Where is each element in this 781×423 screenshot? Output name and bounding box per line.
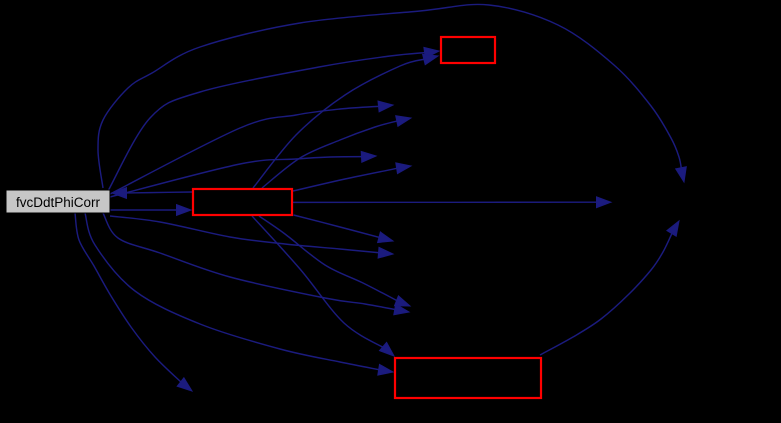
edge fvcDdtPhiCorr to node n3 — [110, 151, 376, 197]
edge fvcDdtPhiCorr to node n1 — [110, 101, 393, 194]
node top box (red highlighted) — [441, 37, 495, 63]
node bottom box (red highlighted) — [395, 358, 541, 398]
node mid box (red highlighted) — [193, 189, 292, 215]
edge mid box to top box — [253, 54, 438, 188]
edge fvcDdtPhiCorr to node n6b — [103, 213, 409, 315]
edge fvcDdtPhiCorr to right node (big top curve) — [98, 4, 686, 188]
edge mid box to node n5a — [294, 215, 394, 243]
edge mid box to right node (horizontal) — [293, 197, 611, 208]
edge fvcDdtPhiCorr to top box — [108, 47, 439, 191]
edge fvcDdtPhiCorr to node n5b — [110, 216, 393, 258]
edge mid box to bottom box — [252, 216, 394, 356]
edge bottom box to right node — [540, 221, 679, 355]
svg-text:fvcDdtPhiCorr: fvcDdtPhiCorr — [16, 195, 101, 210]
edge mid box to node n6a — [259, 216, 410, 306]
edge mid box to node n4 — [293, 163, 411, 191]
edge mid box to node n2 — [262, 116, 411, 188]
edge fvcDdtPhiCorr to bottom box — [85, 213, 393, 375]
edge fvcDdtPhiCorr to bottom-left node — [75, 213, 192, 391]
node fvcDdtPhiCorr (grey central node) — [6, 190, 110, 213]
edge mid box to fvcDdtPhiCorr — [112, 188, 192, 199]
edge fvcDdtPhiCorr to mid box — [110, 205, 191, 216]
